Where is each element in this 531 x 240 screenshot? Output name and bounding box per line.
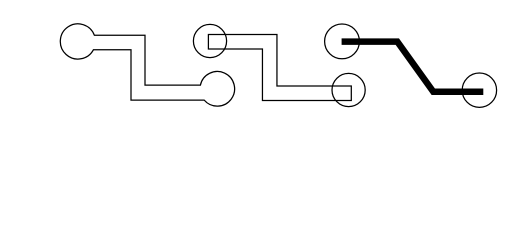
trace C-D (outlined trace with square end caps) xyxy=(208,35,351,101)
pad D (round pad, bottom middle-right) xyxy=(332,73,365,106)
pad E (round pad, top right) xyxy=(325,24,360,59)
pad F (round pad, bottom right) xyxy=(462,73,496,107)
thick trace E-F (filled) xyxy=(342,42,484,92)
pad A + pad B + trace A-B (merged outline) xyxy=(60,24,234,106)
pad C (round pad, top middle) xyxy=(193,24,226,57)
